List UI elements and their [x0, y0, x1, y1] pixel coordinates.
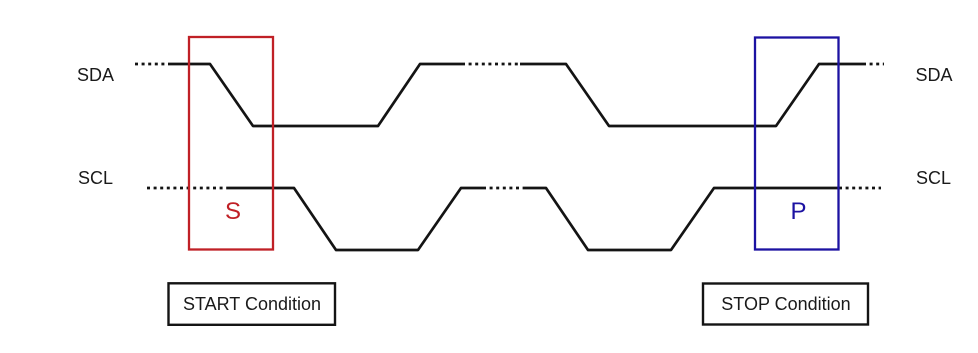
STOP Condition callout box: [703, 284, 868, 325]
svg-text:START Condition: START Condition: [183, 294, 321, 314]
svg-text:S: S: [225, 198, 241, 225]
START condition marker box (red): [189, 37, 273, 250]
wire SCL second waveform: [525, 188, 839, 250]
svg-text:SCL: SCL: [78, 168, 113, 188]
svg-text:STOP Condition: STOP Condition: [721, 294, 850, 314]
wire SDA left dotted lead-in: [135, 63, 168, 66]
START Condition callout box: [169, 283, 336, 325]
wire SDA main waveform: [168, 64, 462, 126]
svg-text:SDA: SDA: [77, 65, 114, 85]
wire SCL right dotted lead-out: [839, 187, 881, 190]
wire SDA middle dotted high: [462, 63, 520, 66]
wire SDA right dotted lead-out: [863, 63, 884, 66]
STOP condition marker box (blue): [755, 38, 839, 250]
svg-text:SCL: SCL: [916, 168, 951, 188]
wire SCL middle dotted high: [483, 187, 525, 190]
svg-text:P: P: [790, 198, 806, 225]
wire SDA second waveform: [520, 64, 863, 126]
svg-text:SDA: SDA: [915, 65, 952, 85]
wire SCL left dotted lead-in: [147, 187, 227, 190]
wire SCL main waveform: [227, 188, 483, 250]
